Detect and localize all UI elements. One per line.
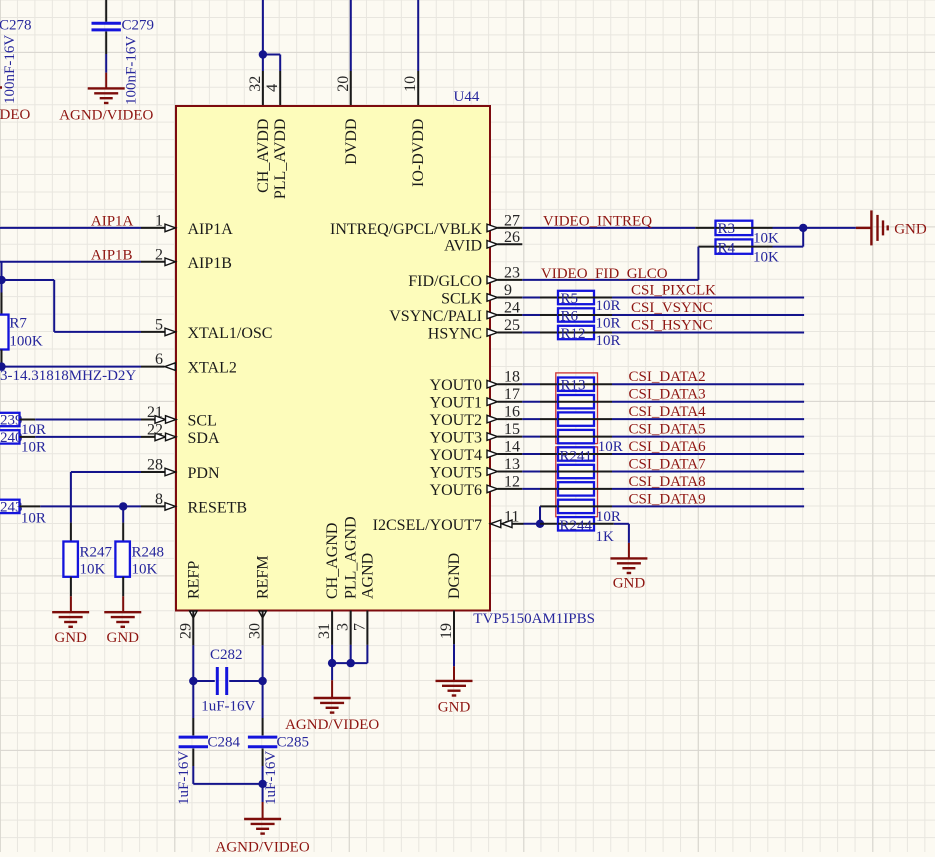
pin 1 AIP1A bbox=[141, 227, 165, 229]
svg-text:VSYNC/PALI: VSYNC/PALI bbox=[389, 308, 482, 325]
svg-text:12: 12 bbox=[504, 473, 520, 490]
resistor pack outline R13 bbox=[556, 373, 598, 444]
wire AIP1B bbox=[0, 261, 141, 263]
pin 30 REFM stub bbox=[259, 611, 267, 618]
pin 5 XTAL1/OSC bbox=[141, 331, 165, 333]
svg-text:R3: R3 bbox=[718, 221, 736, 237]
wire IO-DVDD vertical to pin 10 bbox=[417, 0, 419, 71]
wire pin11 up to DATA9 bbox=[539, 506, 541, 523]
svg-text:1uF-16V: 1uF-16V bbox=[263, 751, 279, 805]
pin 28 PDN bbox=[141, 471, 165, 473]
svg-text:243: 243 bbox=[0, 500, 23, 516]
svg-text:YOUT5: YOUT5 bbox=[430, 465, 482, 482]
svg-text:26: 26 bbox=[504, 229, 520, 246]
svg-text:10R: 10R bbox=[596, 333, 621, 349]
pin 32 stub bbox=[262, 71, 264, 106]
svg-text:10R: 10R bbox=[21, 511, 46, 527]
wire RESETB bbox=[20, 505, 41, 507]
svg-text:GND: GND bbox=[54, 630, 87, 646]
svg-text:DGND: DGND bbox=[446, 553, 463, 599]
wire SDA bbox=[20, 436, 36, 438]
pin 3 stub bbox=[350, 611, 352, 645]
resistor R239 (clipped) bbox=[0, 413, 20, 426]
svg-text:239: 239 bbox=[0, 413, 23, 429]
svg-text:CSI_DATA3: CSI_DATA3 bbox=[629, 387, 706, 403]
svg-text:C279: C279 bbox=[122, 18, 155, 34]
wire DGND bbox=[453, 644, 455, 666]
svg-text:IO-DVDD: IO-DVDD bbox=[410, 119, 427, 187]
resistor pack element row CSI_DATA4 bbox=[522, 418, 540, 420]
pin 27 INTREQ/GPCL/VBLK bbox=[487, 224, 498, 232]
svg-text:C282: C282 bbox=[210, 647, 243, 663]
svg-text:R6: R6 bbox=[561, 309, 579, 325]
svg-text:10K: 10K bbox=[753, 250, 779, 266]
svg-text:CSI_DATA7: CSI_DATA7 bbox=[629, 457, 707, 473]
svg-text:AIP1A: AIP1A bbox=[188, 221, 234, 238]
wire to R248 bbox=[122, 506, 124, 522]
wire VIDEO_FID_GLCO bbox=[522, 279, 698, 281]
ground AGND/VIDEO at C279 bbox=[105, 73, 107, 89]
svg-text:27: 27 bbox=[504, 212, 520, 229]
pin 18 YOUT0 bbox=[487, 380, 498, 388]
svg-text:3-14.31818MHZ-D2Y: 3-14.31818MHZ-D2Y bbox=[0, 368, 136, 384]
resistor R247 bbox=[70, 523, 72, 542]
svg-text:R241: R241 bbox=[560, 449, 593, 465]
svg-text:C284: C284 bbox=[208, 734, 241, 750]
svg-text:YOUT4: YOUT4 bbox=[430, 447, 482, 464]
svg-text:U44: U44 bbox=[454, 89, 480, 105]
svg-text:CH_AGND: CH_AGND bbox=[324, 523, 341, 599]
svg-text:8: 8 bbox=[155, 491, 163, 508]
wire REFM to ground bbox=[262, 766, 264, 784]
node RESETB junction bbox=[119, 502, 127, 510]
wire PDN bbox=[70, 472, 72, 523]
pin 16 YOUT2 bbox=[487, 415, 498, 423]
wire R244 to GND bbox=[614, 523, 629, 525]
pin 23 FID/GLCO bbox=[487, 276, 498, 284]
resistor R244 bbox=[540, 523, 558, 525]
resistor R12 bbox=[522, 332, 540, 334]
svg-text:TVP5150AM1IPBS: TVP5150AM1IPBS bbox=[473, 611, 595, 627]
svg-text:AIP1B: AIP1B bbox=[91, 247, 133, 263]
svg-text:20: 20 bbox=[335, 76, 352, 92]
svg-text:31: 31 bbox=[316, 623, 333, 639]
ground AGND/VIDEO at pins 31/3/7 bbox=[331, 663, 333, 680]
svg-text:GND: GND bbox=[438, 700, 471, 716]
svg-text:REFP: REFP bbox=[185, 561, 202, 599]
wire SCL bbox=[20, 419, 36, 421]
svg-text:YOUT2: YOUT2 bbox=[430, 412, 482, 429]
resistor pack element row CSI_DATA2 bbox=[522, 383, 540, 385]
ground GND at pin 19 bbox=[453, 666, 455, 680]
svg-text:VIDEO_FID_GLCO: VIDEO_FID_GLCO bbox=[541, 266, 668, 282]
svg-text:24: 24 bbox=[504, 300, 520, 317]
svg-text:25: 25 bbox=[504, 317, 520, 334]
node XTAL2 junction bbox=[0, 362, 6, 370]
svg-text:1uF-16V: 1uF-16V bbox=[176, 751, 192, 805]
capacitor C282 bbox=[189, 677, 197, 685]
svg-text:19: 19 bbox=[438, 623, 455, 639]
wire net CSI_DATA7 bbox=[612, 471, 804, 473]
pin 9 SCLK bbox=[487, 294, 498, 302]
svg-text:XTAL2: XTAL2 bbox=[188, 360, 237, 377]
svg-text:CSI_PIXCLK: CSI_PIXCLK bbox=[631, 283, 716, 299]
pin 19 DGND stub bbox=[453, 611, 455, 645]
pin 8 RESETB bbox=[141, 505, 165, 507]
pin 14 YOUT4 bbox=[487, 450, 498, 458]
wire net CSI_DATA8 bbox=[612, 488, 804, 490]
svg-text:CSI_DATA5: CSI_DATA5 bbox=[629, 422, 706, 438]
resistor pack element row CSI_DATA3 bbox=[522, 401, 540, 403]
resistor R7 bbox=[1, 293, 3, 315]
svg-text:28: 28 bbox=[147, 457, 163, 474]
wire net CSI_DATA4 bbox=[612, 418, 804, 420]
svg-text:AGND/VIDEO: AGND/VIDEO bbox=[216, 840, 310, 852]
svg-text:CSI_DATA8: CSI_DATA8 bbox=[629, 474, 706, 490]
pin 12 YOUT6 bbox=[487, 485, 498, 493]
svg-text:XTAL1/OSC: XTAL1/OSC bbox=[188, 325, 273, 342]
wire R4 to junction bbox=[773, 246, 804, 248]
pin 17 YOUT1 bbox=[487, 398, 498, 406]
svg-text:1: 1 bbox=[155, 212, 163, 229]
svg-text:AGND/VIDEO: AGND/VIDEO bbox=[59, 108, 153, 124]
wire net CSI_HSYNC bbox=[612, 332, 804, 334]
node bottom junction bbox=[258, 780, 266, 788]
svg-text:R4: R4 bbox=[718, 240, 736, 256]
node left junction bbox=[0, 276, 6, 284]
svg-text:YOUT0: YOUT0 bbox=[430, 377, 482, 394]
resistor pack outline R241 bbox=[556, 447, 598, 517]
wire AIP1A bbox=[0, 227, 141, 229]
svg-text:YOUT1: YOUT1 bbox=[430, 395, 482, 412]
svg-text:14: 14 bbox=[504, 439, 520, 456]
svg-text:5: 5 bbox=[155, 316, 163, 333]
pin 21 SCL bbox=[141, 419, 165, 421]
svg-text:17: 17 bbox=[504, 386, 520, 403]
svg-text:VIDEO_INTREQ: VIDEO_INTREQ bbox=[543, 213, 652, 229]
wire net CSI_DATA9 bbox=[612, 505, 804, 507]
svg-text:CSI_VSYNC: CSI_VSYNC bbox=[631, 300, 713, 316]
svg-text:23: 23 bbox=[504, 264, 520, 281]
resistor R243 (clipped) bbox=[0, 500, 20, 513]
svg-text:CSI_HSYNC: CSI_HSYNC bbox=[631, 318, 713, 334]
svg-text:22: 22 bbox=[147, 421, 163, 438]
ground GND at R244 bbox=[628, 543, 630, 559]
svg-text:GND: GND bbox=[107, 630, 140, 646]
svg-text:16: 16 bbox=[504, 404, 520, 421]
svg-text:RESETB: RESETB bbox=[188, 499, 248, 516]
ground GND at R247 bbox=[70, 596, 72, 612]
svg-text:10R: 10R bbox=[21, 440, 46, 456]
svg-text:10R: 10R bbox=[596, 298, 621, 314]
svg-text:21: 21 bbox=[147, 404, 163, 421]
resistor pack element row CSI_DATA6 bbox=[522, 453, 540, 455]
wire net CSI_DATA5 bbox=[612, 436, 804, 438]
pin 20 stub bbox=[350, 71, 352, 106]
svg-text:10: 10 bbox=[402, 76, 419, 92]
pin 11 I2CSEL/YOUT7 bbox=[490, 520, 501, 528]
svg-text:18: 18 bbox=[504, 369, 520, 386]
resistor R5 bbox=[522, 297, 540, 299]
svg-text:CSI_DATA6: CSI_DATA6 bbox=[629, 439, 707, 455]
svg-text:10R: 10R bbox=[596, 316, 621, 332]
pin 10 stub bbox=[417, 71, 419, 106]
svg-text:R13: R13 bbox=[561, 378, 586, 394]
ground GND at R248 bbox=[122, 596, 124, 612]
wire net CSI_DATA6 bbox=[612, 453, 804, 455]
svg-text:FID/GLCO: FID/GLCO bbox=[408, 273, 482, 290]
pin 31 stub bbox=[331, 611, 333, 645]
svg-text:SCL: SCL bbox=[188, 413, 217, 430]
svg-text:YOUT6: YOUT6 bbox=[430, 482, 482, 499]
svg-text:30: 30 bbox=[247, 623, 264, 639]
svg-text:1K: 1K bbox=[596, 529, 615, 545]
svg-text:AGND: AGND bbox=[359, 553, 376, 599]
svg-text:11: 11 bbox=[504, 508, 519, 525]
svg-text:DVDD: DVDD bbox=[343, 119, 360, 165]
resistor pack element row CSI_DATA9 bbox=[540, 505, 558, 507]
wire REFP bottom jog bbox=[192, 766, 194, 784]
pin 2 AIP1B bbox=[141, 261, 165, 263]
resistor R248 bbox=[122, 523, 124, 542]
wire net CSI_DATA2 bbox=[612, 383, 804, 385]
ground GND right bbox=[856, 227, 872, 229]
svg-text:REFM: REFM bbox=[255, 555, 272, 599]
svg-text:R12: R12 bbox=[561, 326, 586, 342]
resistor R4 bbox=[698, 246, 715, 248]
capacitor C284 bbox=[192, 718, 194, 735]
svg-text:YOUT3: YOUT3 bbox=[430, 430, 482, 447]
wire DVDD vertical to pin 20 bbox=[350, 0, 352, 71]
svg-text:PLL_AVDD: PLL_AVDD bbox=[272, 119, 289, 200]
pin 6 XTAL2 bbox=[141, 366, 165, 368]
pin 26 AVID bbox=[487, 241, 498, 249]
svg-text:100nF-16V: 100nF-16V bbox=[2, 35, 18, 104]
capacitor C279 bbox=[105, 0, 107, 22]
node junction pin32/pin4 bbox=[259, 50, 267, 58]
svg-text:PDN: PDN bbox=[188, 465, 220, 482]
wire VIDEO_INTREQ bbox=[522, 227, 695, 229]
svg-text:10K: 10K bbox=[80, 562, 106, 578]
op-amp U44 TVP5150AM1IPBS IC body bbox=[176, 106, 490, 611]
svg-text:C285: C285 bbox=[277, 734, 310, 750]
svg-text:SDA: SDA bbox=[188, 430, 220, 447]
svg-text:3: 3 bbox=[335, 623, 352, 631]
wire left-edge vertical bbox=[1, 262, 3, 293]
pin 15 YOUT3 bbox=[487, 433, 498, 441]
pin 7 stub bbox=[366, 611, 368, 645]
svg-text:CSI_DATA9: CSI_DATA9 bbox=[629, 491, 706, 507]
node AGND junctions bbox=[328, 659, 336, 667]
svg-text:GND: GND bbox=[613, 576, 646, 592]
pin 25 HSYNC bbox=[487, 329, 498, 337]
wire R3 to GND bbox=[773, 227, 856, 229]
svg-text:100nF-16V: 100nF-16V bbox=[123, 36, 139, 105]
resistor pack element row CSI_DATA8 bbox=[522, 488, 540, 490]
wire VDD vertical to pin 32 bbox=[262, 0, 264, 71]
resistor R240 (clipped) bbox=[0, 430, 20, 443]
svg-text:CSI_DATA2: CSI_DATA2 bbox=[629, 369, 706, 385]
capacitor C285 bbox=[262, 718, 264, 735]
svg-text:GND: GND bbox=[894, 222, 927, 238]
svg-text:CH_AVDD: CH_AVDD bbox=[255, 119, 272, 193]
svg-text:AGND/VIDEO: AGND/VIDEO bbox=[0, 107, 31, 123]
wire jog to pin 4 bbox=[263, 54, 280, 56]
svg-text:240: 240 bbox=[0, 430, 23, 446]
svg-text:6: 6 bbox=[155, 351, 163, 368]
node R3/R4 junction bbox=[799, 224, 807, 232]
svg-text:AVID: AVID bbox=[444, 237, 482, 254]
svg-text:R5: R5 bbox=[561, 291, 579, 307]
svg-text:7: 7 bbox=[351, 623, 368, 631]
svg-text:R247: R247 bbox=[80, 545, 113, 561]
svg-text:CSI_DATA4: CSI_DATA4 bbox=[629, 404, 707, 420]
wire net CSI_PIXCLK bbox=[612, 297, 804, 299]
svg-text:32: 32 bbox=[247, 76, 264, 92]
pin 24 VSYNC/PALI bbox=[487, 311, 498, 319]
ground AGND/VIDEO bottom bbox=[262, 802, 264, 819]
svg-text:1uF-16V: 1uF-16V bbox=[201, 699, 255, 715]
svg-text:PLL_AGND: PLL_AGND bbox=[343, 516, 360, 599]
svg-text:R244: R244 bbox=[560, 518, 593, 534]
wire net CSI_VSYNC bbox=[612, 314, 804, 316]
svg-text:9: 9 bbox=[504, 282, 512, 299]
wire XTAL2 bbox=[0, 366, 141, 368]
svg-text:10R: 10R bbox=[21, 422, 46, 438]
wire XTAL1 jog bbox=[2, 279, 55, 281]
svg-text:10K: 10K bbox=[753, 231, 779, 247]
pin 4 stub bbox=[279, 71, 281, 106]
wire AGND bus bbox=[331, 645, 333, 663]
svg-text:SCLK: SCLK bbox=[441, 291, 482, 308]
resistor R6 bbox=[522, 314, 540, 316]
svg-text:I2CSEL/YOUT7: I2CSEL/YOUT7 bbox=[373, 517, 482, 534]
svg-text:HSYNC: HSYNC bbox=[428, 326, 482, 343]
node pin11 junction bbox=[536, 520, 544, 528]
svg-text:R7: R7 bbox=[9, 316, 27, 332]
svg-text:29: 29 bbox=[177, 623, 194, 639]
svg-text:13: 13 bbox=[504, 456, 520, 473]
pin 13 YOUT5 bbox=[487, 468, 498, 476]
svg-text:15: 15 bbox=[504, 421, 520, 438]
pin 29 REFP stub bbox=[190, 611, 198, 618]
resistor R3 bbox=[695, 227, 715, 229]
svg-text:INTREQ/GPCL/VBLK: INTREQ/GPCL/VBLK bbox=[330, 221, 482, 238]
svg-text:10K: 10K bbox=[132, 562, 158, 578]
svg-text:AIP1B: AIP1B bbox=[188, 255, 232, 272]
wire REFP vertical bbox=[192, 645, 194, 718]
svg-text:C278: C278 bbox=[0, 18, 32, 34]
svg-text:R248: R248 bbox=[132, 545, 165, 561]
wire REFM vertical bbox=[262, 645, 264, 718]
resistor pack element row CSI_DATA5 bbox=[522, 436, 540, 438]
svg-text:10R: 10R bbox=[598, 439, 623, 455]
svg-text:AIP1A: AIP1A bbox=[91, 213, 134, 229]
svg-text:100K: 100K bbox=[9, 334, 43, 350]
wire net CSI_DATA3 bbox=[612, 401, 804, 403]
resistor pack element row CSI_DATA7 bbox=[522, 471, 540, 473]
svg-text:4: 4 bbox=[264, 84, 281, 92]
pin 22 SDA bbox=[141, 436, 165, 438]
svg-text:2: 2 bbox=[155, 246, 163, 263]
svg-text:AGND/VIDEO: AGND/VIDEO bbox=[285, 717, 379, 733]
